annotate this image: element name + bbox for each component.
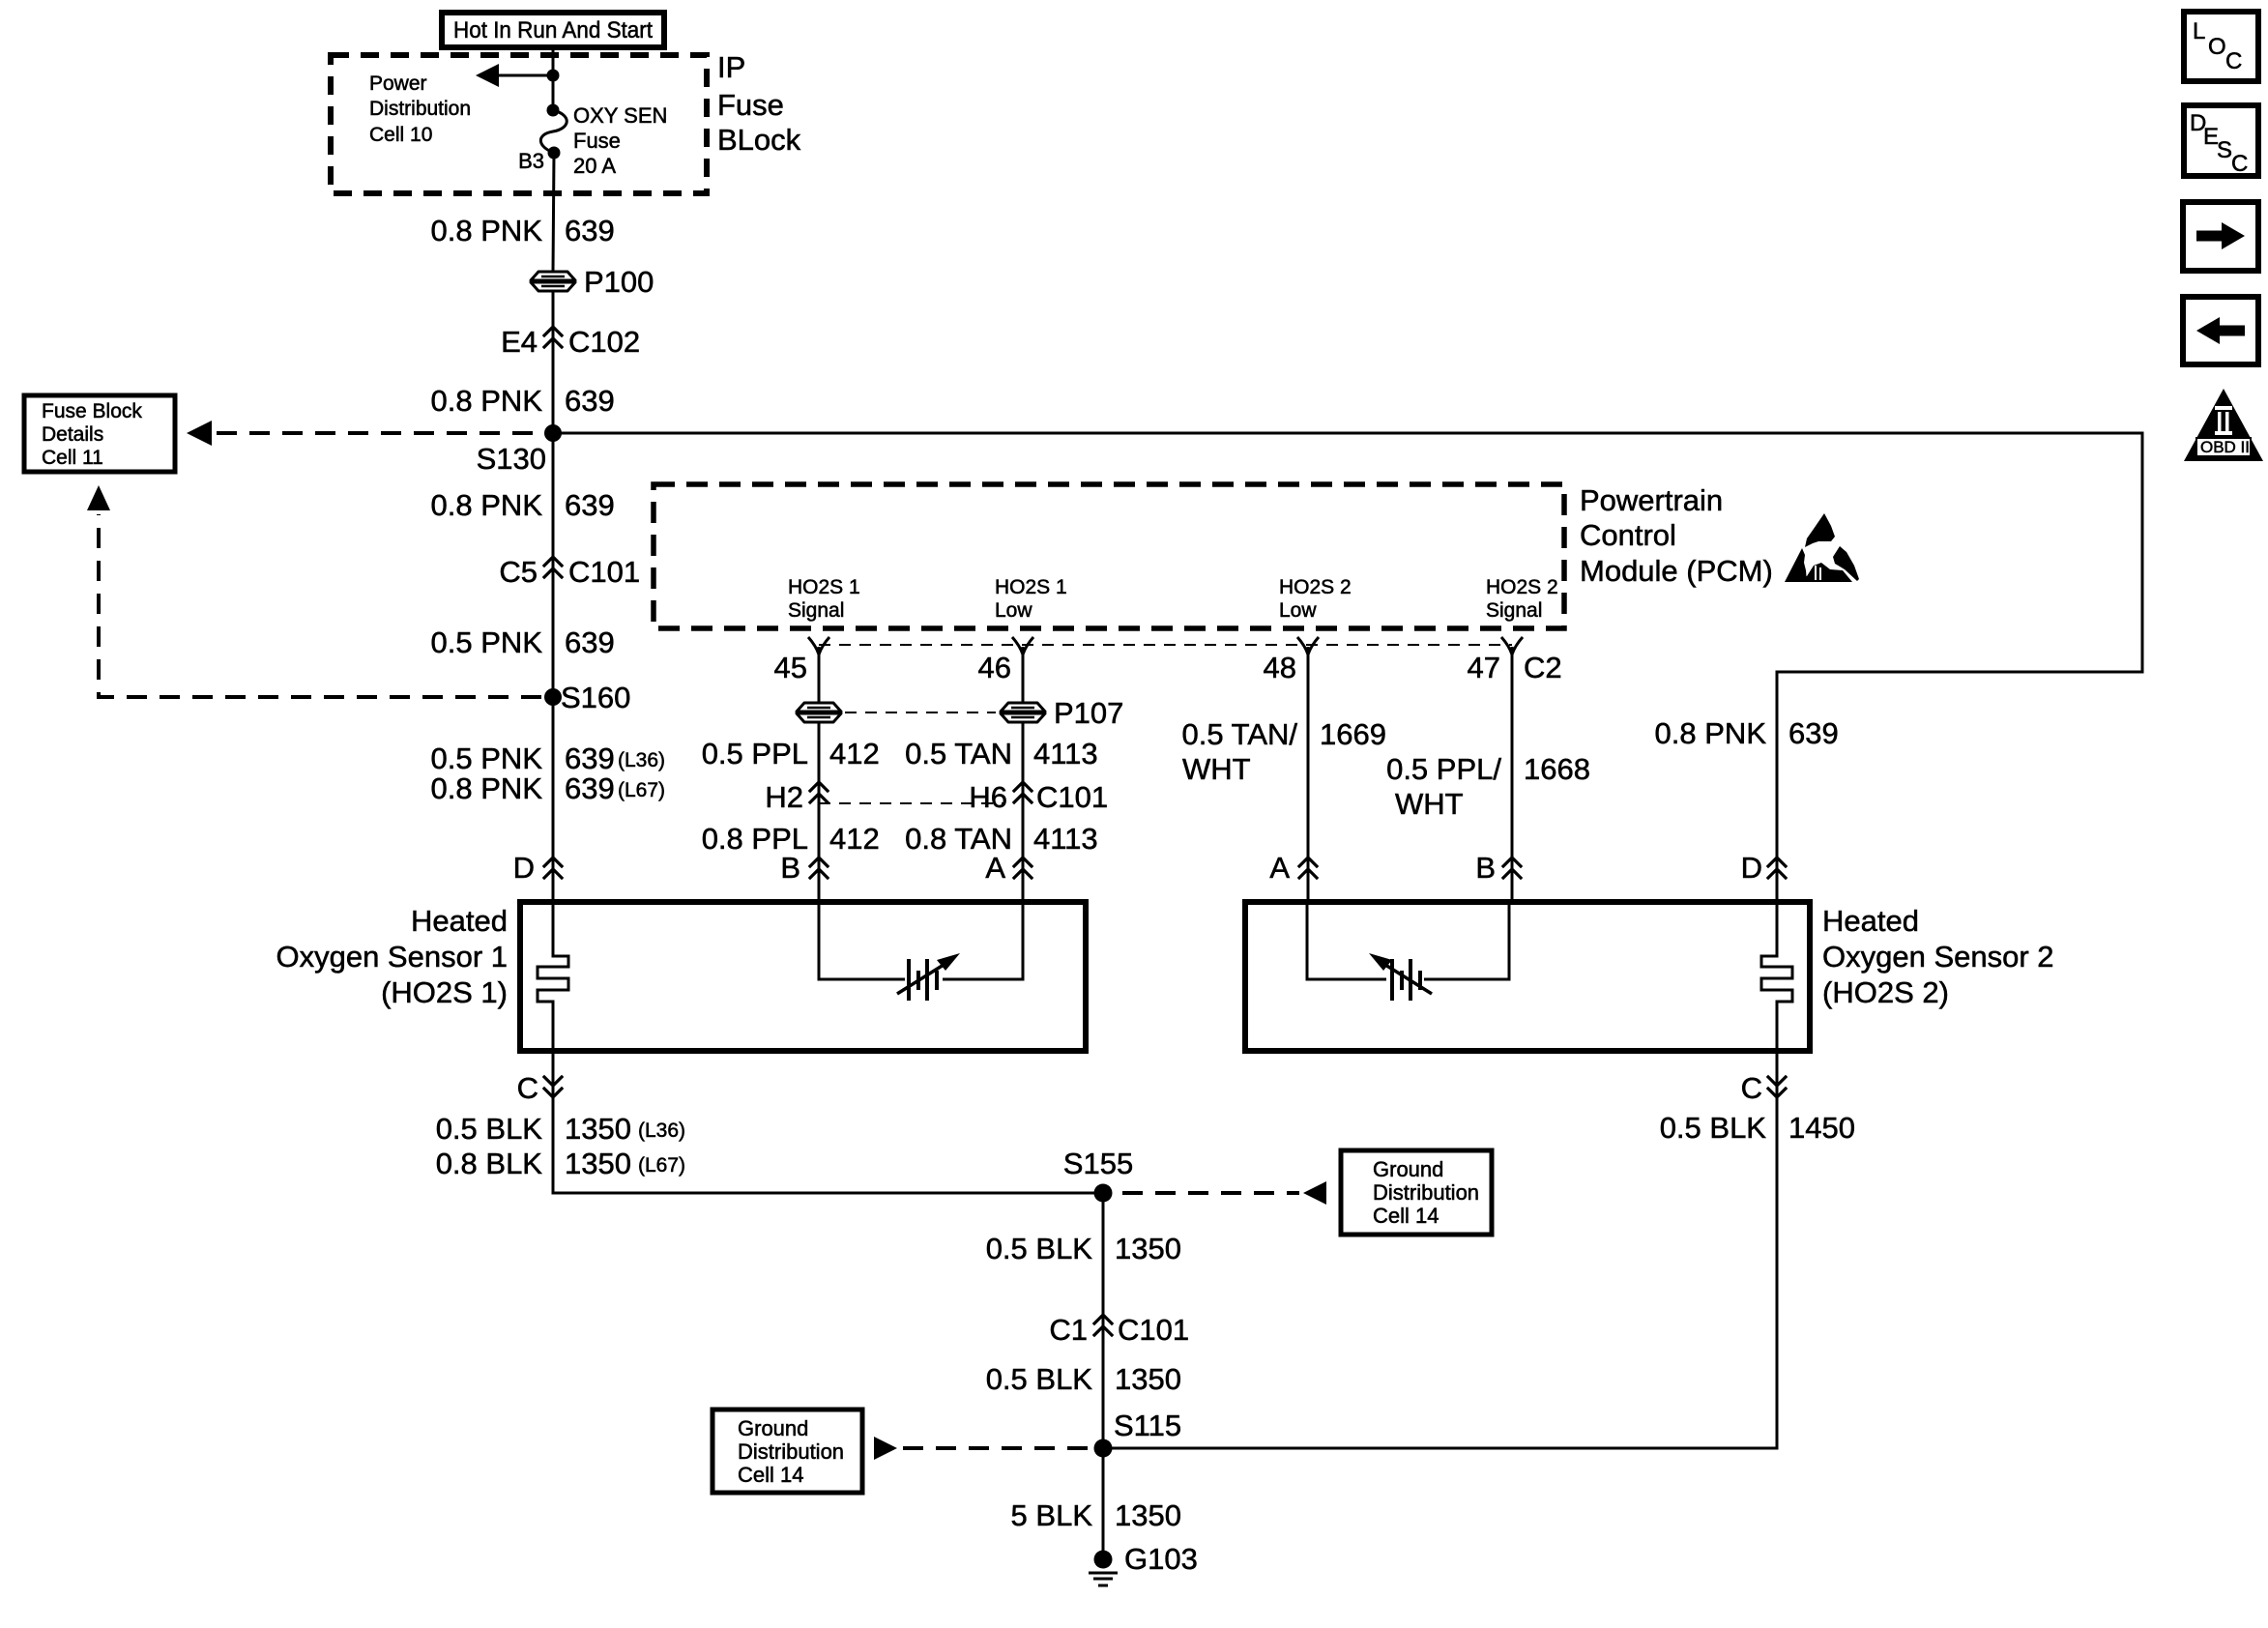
svg-text:1350: 1350 [1115,1498,1181,1532]
svg-text:Low: Low [1279,599,1317,622]
svg-text:1350: 1350 [565,1112,631,1146]
svg-text:Hot In Run And Start: Hot In Run And Start [453,17,653,44]
connector C2 dashed interface line [819,644,1512,646]
svg-text:(L36): (L36) [618,749,665,771]
node S160 [544,688,562,706]
header box Hot In Run And Start [442,13,664,47]
wire 412: pin 45 to HO2S1 B [818,647,821,902]
svg-text:Distribution: Distribution [738,1439,844,1464]
svg-text:H6: H6 [969,780,1007,814]
pin D of HO2S2 [1741,851,1786,885]
svg-text:S130: S130 [477,442,546,476]
svg-text:B: B [1475,851,1496,885]
pin D of HO2S1 [513,851,562,885]
svg-text:0.5 BLK: 0.5 BLK [986,1362,1093,1396]
svg-text:S160: S160 [561,681,630,714]
svg-text:0.5 PPL/: 0.5 PPL/ [1386,752,1501,786]
heater element HO2S1 [538,902,568,1051]
node S130 junction [544,424,562,442]
svg-text:Powertrain: Powertrain [1580,483,1723,517]
svg-text:4113: 4113 [1033,737,1098,770]
svg-text:(L67): (L67) [638,1154,685,1177]
label 0.5 BLK 1350 [986,1362,1181,1396]
svg-text:0.5 BLK: 0.5 BLK [986,1232,1093,1265]
svg-text:H2: H2 [765,780,803,814]
svg-text:Signal: Signal [788,599,844,622]
svg-text:C2: C2 [1524,651,1562,684]
wire: S130 to S160 [552,433,555,697]
label 0.5 BLK 1450 [1660,1111,1855,1145]
dashed tie between H2 and H6 [819,802,1005,804]
pin B of HO2S2 [1475,851,1521,885]
fuse OXY SEN 20A [540,104,567,160]
svg-text:48: 48 [1264,651,1296,684]
label HO2S 1 Low [995,576,1067,622]
svg-text:412: 412 [829,822,880,856]
label HO2S 2 Signal [1486,576,1558,622]
svg-text:HO2S 2: HO2S 2 [1279,576,1352,598]
svg-text:0.5 PNK: 0.5 PNK [431,741,543,775]
svg-text:Low: Low [995,599,1032,622]
icon LOC box [2184,12,2258,81]
pin A of HO2S2 [1269,851,1317,885]
grommet P107 on wire 46 [1001,696,1123,730]
sense element HO2S1 (wires B,A internal) [819,902,1023,1001]
connector H2 C101 [765,780,828,814]
wire: branch to power distribution (arrow left) [495,74,553,77]
svg-text:Fuse Block: Fuse Block [42,400,142,422]
label 5 BLK 1350 [1011,1498,1181,1532]
label 0.5 BLK 1350 [986,1232,1181,1265]
svg-text:OXY SEN: OXY SEN [573,103,667,128]
label IP Fuse BLock [717,50,801,157]
ref box Ground Distribution Cell 14 (left) [712,1410,862,1493]
svg-text:Details: Details [42,423,103,446]
label 0.8 PNK 639 (L67) [431,771,665,805]
wire: header to fuse [552,47,555,110]
label 0.5 TAN/ WHT 1669 [1182,717,1386,786]
svg-text:C101: C101 [1118,1313,1189,1347]
node S155 [1094,1184,1113,1203]
connector C1 C101 [1049,1313,1189,1347]
svg-text:HO2S 1: HO2S 1 [788,576,860,598]
component HO2S1 box [520,902,1086,1051]
wire 1669: pin 48 to HO2S2 A [1307,647,1310,902]
dashed ref line S130 to Fuse Block Details [217,431,541,435]
svg-text:Cell 14: Cell 14 [1373,1204,1439,1228]
svg-text:0.8 PNK: 0.8 PNK [431,488,543,522]
svg-text:D: D [1741,851,1762,885]
svg-text:45: 45 [774,651,807,684]
wire 4113: pin 46 to HO2S1 A [1022,647,1025,902]
svg-text:47: 47 [1468,651,1500,684]
svg-text:639: 639 [565,771,615,805]
svg-text:IP: IP [717,50,745,84]
svg-text:639: 639 [565,214,615,247]
svg-text:WHT: WHT [1395,787,1464,821]
svg-text:C: C [2225,48,2242,74]
wire: S160 to HO2S1 D [552,697,555,902]
PCM dashed box [654,484,1564,628]
svg-text:C: C [517,1071,538,1105]
wire: S130 bus right and down to HO2S2 D [553,433,2142,902]
grommet P107 on wire 45 [797,703,841,722]
wire 1350: HO2S1 C down to S155 [553,1051,1103,1193]
svg-text:0.8 BLK: 0.8 BLK [436,1147,543,1180]
label 0.8 PNK 639 [431,384,615,418]
label 0.5 TAN 4113 [905,737,1098,770]
svg-text:0.5 TAN/: 0.5 TAN/ [1182,717,1298,751]
svg-text:639: 639 [565,741,615,775]
svg-text:5 BLK: 5 BLK [1011,1498,1093,1532]
svg-text:HO2S 1: HO2S 1 [995,576,1067,598]
svg-text:Oxygen Sensor 1: Oxygen Sensor 1 [276,940,508,974]
svg-text:412: 412 [829,737,880,770]
svg-text:Power: Power [369,73,427,95]
icon forward arrow box [2183,202,2258,271]
svg-text:1669: 1669 [1320,717,1386,751]
svg-text:(HO2S 2): (HO2S 2) [1822,975,1949,1009]
svg-text:20 A: 20 A [573,154,616,178]
icon OBD II triangle [2184,389,2263,461]
svg-text:B3: B3 [518,149,544,173]
dashed tie between P107 grommets [845,712,996,713]
label 0.8 PNK 639 [431,488,615,522]
label Heated Oxygen Sensor 2 (HO2S 2) [1822,904,2054,1009]
svg-text:0.8 PNK: 0.8 PNK [1655,716,1767,750]
svg-text:Fuse: Fuse [573,129,621,153]
svg-text:639: 639 [1788,716,1839,750]
svg-text:Distribution: Distribution [369,98,471,120]
label HO2S 2 Low [1279,576,1352,622]
svg-text:Signal: Signal [1486,599,1542,622]
wire: S155 down to S115 [1102,1193,1105,1448]
svg-text:Ground: Ground [1373,1157,1443,1181]
sense element HO2S2 (wires A,B internal) [1307,902,1509,1001]
label OXY SEN Fuse 20 A [573,103,667,178]
pin 48 socket [1297,637,1319,654]
svg-text:1350: 1350 [1115,1232,1181,1265]
svg-text:Ground: Ground [738,1416,808,1440]
svg-text:S155: S155 [1063,1147,1133,1180]
svg-text:G103: G103 [1124,1542,1198,1576]
svg-text:O: O [2208,34,2226,60]
wire: P100 to C102 [552,291,555,433]
svg-text:Fuse: Fuse [717,88,784,122]
svg-text:C: C [1741,1071,1762,1105]
wire 1668: pin 47 to HO2S2 B [1511,647,1514,902]
label HO2S 1 Signal [788,576,860,622]
svg-text:0.5 BLK: 0.5 BLK [1660,1111,1767,1145]
label 0.5 PNK 639 [431,625,615,659]
svg-text:S115: S115 [1114,1409,1181,1442]
pin 47 socket [1501,637,1523,654]
svg-text:B: B [780,851,800,885]
svg-text:A: A [1269,851,1290,885]
svg-text:Module (PCM): Module (PCM) [1580,554,1773,588]
ref box Ground Distribution Cell 14 (right) [1341,1150,1492,1235]
svg-text:639: 639 [565,625,615,659]
label 0.8 TAN 4113 [905,822,1098,856]
wire: S115 right to HO2S2 C leg [1103,1051,1777,1448]
svg-text:C102: C102 [568,325,640,359]
label 0.8 PNK 639 [431,214,615,247]
svg-text:1350: 1350 [1115,1362,1181,1396]
pin C of HO2S2 [1741,1071,1786,1105]
svg-text:A: A [985,851,1005,885]
wire: S115 down to G103 [1102,1448,1105,1559]
svg-text:0.8 PNK: 0.8 PNK [431,384,543,418]
svg-text:(HO2S 1): (HO2S 1) [381,975,508,1009]
svg-text:639: 639 [565,384,615,418]
dashed ref line S160 to Fuse Block Details [99,514,541,697]
svg-text:Cell 11: Cell 11 [42,447,103,469]
dashed ref line Ground Distribution to S115 [874,1437,897,1460]
ESD symbol [1785,513,1859,582]
svg-text:Heated: Heated [1822,904,1919,938]
svg-text:Control: Control [1580,518,1676,552]
icon DESC box [2184,105,2258,177]
label 0.5 PNK 639 (L36) [431,741,665,775]
wire: fuse to P100 [553,153,554,272]
svg-text:C101: C101 [1036,780,1108,814]
label 0.5 PPL/ WHT 1668 [1386,752,1590,821]
svg-text:0.5 PNK: 0.5 PNK [431,625,543,659]
component HO2S2 box [1245,902,1810,1051]
svg-text:Heated: Heated [411,904,508,938]
svg-text:1350: 1350 [565,1147,631,1180]
svg-text:C5: C5 [499,555,538,589]
svg-text:Cell 10: Cell 10 [369,124,432,146]
label Powertrain Control Module (PCM) [1580,483,1773,588]
connector E4 C102 [501,325,640,359]
junction at branch [547,70,560,82]
heater element HO2S2 [1761,902,1792,1051]
pin C of HO2S1 [517,1071,562,1105]
ground G103 [1089,1542,1198,1585]
svg-text:C: C [2231,151,2248,177]
svg-text:WHT: WHT [1182,752,1251,786]
label 0.8 BLK 1350 (L67) [436,1147,685,1180]
svg-text:0.8 PNK: 0.8 PNK [431,771,543,805]
svg-text:(L67): (L67) [618,779,665,801]
svg-text:D: D [513,851,535,885]
svg-text:0.5 BLK: 0.5 BLK [436,1112,543,1146]
svg-text:E4: E4 [501,325,538,359]
svg-text:L: L [2193,18,2205,44]
svg-text:1668: 1668 [1524,752,1590,786]
svg-text:BLock: BLock [717,123,801,157]
svg-text:46: 46 [978,651,1011,684]
ref box Fuse Block Details Cell 11 [24,395,175,472]
svg-text:Distribution: Distribution [1373,1180,1479,1205]
svg-text:S: S [2217,137,2232,163]
label 0.5 PPL 412 [702,737,880,770]
grommet P100 [531,265,654,299]
icon back arrow box [2183,297,2258,364]
pin 45 socket [808,637,829,654]
svg-text:HO2S 2: HO2S 2 [1486,576,1558,598]
svg-text:Oxygen Sensor 2: Oxygen Sensor 2 [1822,940,2054,974]
connector H6 C101 [969,780,1108,814]
label Heated Oxygen Sensor 1 (HO2S 1) [276,904,508,1009]
svg-text:639: 639 [565,488,615,522]
pin B of HO2S1 [780,851,828,885]
svg-text:0.8 PNK: 0.8 PNK [431,214,543,247]
label 0.5 BLK 1350 (L36) [436,1112,685,1146]
svg-text:P100: P100 [584,265,654,299]
svg-text:0.5 PPL: 0.5 PPL [702,737,808,770]
svg-text:4113: 4113 [1033,822,1098,856]
svg-text:0.5 TAN: 0.5 TAN [905,737,1012,770]
label 0.8 PNK 639 (right) [1655,716,1839,750]
dashed ref line S155 to Ground Distribution [1122,1191,1299,1195]
label 0.8 PPL 412 [702,822,880,856]
svg-text:C101: C101 [568,555,640,589]
svg-text:P107: P107 [1054,696,1123,730]
svg-text:OBD II: OBD II [2200,438,2250,456]
svg-text:1450: 1450 [1788,1111,1855,1145]
svg-text:C1: C1 [1049,1313,1088,1347]
svg-text:Cell 14: Cell 14 [738,1463,803,1487]
node S115 [1094,1439,1113,1458]
pin 46 socket [1012,637,1033,654]
connector C5 C101 [499,555,640,589]
label Power Distribution Cell 10 [369,73,471,146]
pin A of HO2S1 [985,851,1032,885]
arrowhead left [476,64,499,87]
svg-text:(L36): (L36) [638,1119,685,1142]
IP Fuse Block dashed box [331,55,707,193]
